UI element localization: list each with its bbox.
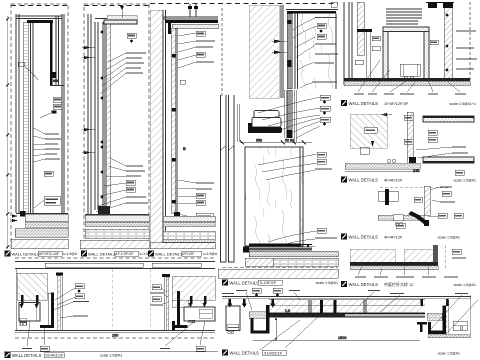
svg-text:WALL DETAILS: WALL DETAILS (88, 251, 116, 256)
svg-text:01/401/1F: 01/401/1F (46, 353, 65, 358)
svg-text:scale 1:5@A1: scale 1:5@A1 (454, 178, 476, 182)
svg-text:4F/4F/12F: 4F/4F/12F (384, 177, 403, 182)
svg-text:WALL DETAILS: WALL DETAILS (349, 101, 379, 106)
svg-text:2F/12F: 2F/12F (183, 252, 196, 256)
svg-text:scale 1:5@A1: scale 1:5@A1 (454, 283, 476, 287)
svg-text:5-10F/2F: 5-10F/2F (260, 280, 277, 285)
svg-text:s=1:5@A: s=1:5@A (63, 252, 78, 256)
svg-text:1500: 1500 (338, 336, 346, 340)
svg-text:s=1:5@A: s=1:5@A (203, 252, 218, 256)
svg-text:350: 350 (256, 139, 262, 143)
svg-text:WALL DETAILS: WALL DETAILS (155, 251, 183, 256)
svg-text:WALL DETAILS: WALL DETAILS (12, 353, 42, 358)
svg-text:1F/4F/12F/3F: 1F/4F/12F/3F (384, 101, 409, 106)
svg-text:scale 1:5@A1: scale 1:5@A1 (438, 235, 460, 239)
svg-text:180: 180 (112, 334, 118, 338)
svg-text:1.5: 1.5 (285, 309, 290, 313)
svg-text:4F/4F/12F: 4F/4F/12F (384, 234, 403, 239)
svg-text:50 90: 50 90 (285, 139, 294, 143)
svg-text:WALL DETAILS: WALL DETAILS (349, 177, 379, 182)
svg-text:scale 1:5@A1+1: scale 1:5@A1+1 (449, 102, 476, 106)
svg-text:WALL DETAILS: WALL DETAILS (12, 251, 40, 256)
svg-text:中庭栏杆大样 12: 中庭栏杆大样 12 (384, 281, 414, 287)
svg-text:E: E (183, 146, 186, 151)
svg-text:scale 1:5@A1: scale 1:5@A1 (100, 354, 122, 358)
svg-text:s=1:5: s=1:5 (140, 252, 149, 256)
svg-text:WALL DETAILS: WALL DETAILS (349, 282, 379, 287)
svg-text:1F,2.5F/1F: 1F,2.5F/1F (116, 252, 135, 256)
svg-text:scale 1:5@A1: scale 1:5@A1 (438, 351, 460, 355)
svg-text:248: 248 (413, 169, 419, 173)
svg-text:WALL DETAILS: WALL DETAILS (230, 350, 260, 355)
svg-text:1F/2F,5-10F: 1F/2F,5-10F (39, 252, 60, 256)
svg-text:WALL DETAILS: WALL DETAILS (349, 234, 379, 239)
svg-text:WALL DETAILS: WALL DETAILS (230, 280, 260, 285)
svg-text:01/402/1F: 01/402/1F (264, 350, 283, 355)
svg-text:scale 1:5@A1: scale 1:5@A1 (316, 281, 338, 285)
